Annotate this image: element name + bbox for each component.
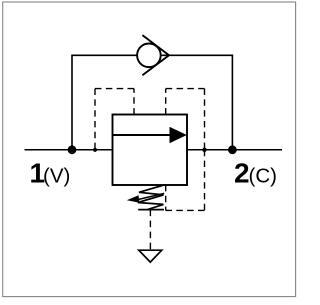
drain line (dashed) xyxy=(149,210,151,250)
flow arrow inside box xyxy=(113,134,173,136)
check valve CV1 seat xyxy=(142,35,169,75)
junction dot right pilot xyxy=(202,148,206,152)
spring xyxy=(138,185,164,210)
svg-text:(C): (C) xyxy=(249,164,277,187)
pilot line right upper (dashed) xyxy=(166,89,205,150)
svg-text:2: 2 xyxy=(234,157,250,188)
spring base bar xyxy=(138,209,164,211)
pilot line left (dashed) xyxy=(95,89,134,150)
svg-text:(V): (V) xyxy=(43,164,70,187)
valve body (main spool box) xyxy=(113,115,188,186)
junction dot left pilot xyxy=(93,148,97,152)
wire: check-valve bypass loop xyxy=(72,55,232,150)
vent triangle (drain to atmosphere) xyxy=(139,250,162,262)
spring adjustment arrow xyxy=(137,193,165,200)
pilot line right lower / spring chamber (dashed) xyxy=(166,150,205,211)
wire: main line 1 to 2 xyxy=(25,149,283,151)
check valve CV1 ball xyxy=(137,44,161,68)
node at port 1 xyxy=(68,145,77,154)
node at port 2 xyxy=(228,145,237,154)
